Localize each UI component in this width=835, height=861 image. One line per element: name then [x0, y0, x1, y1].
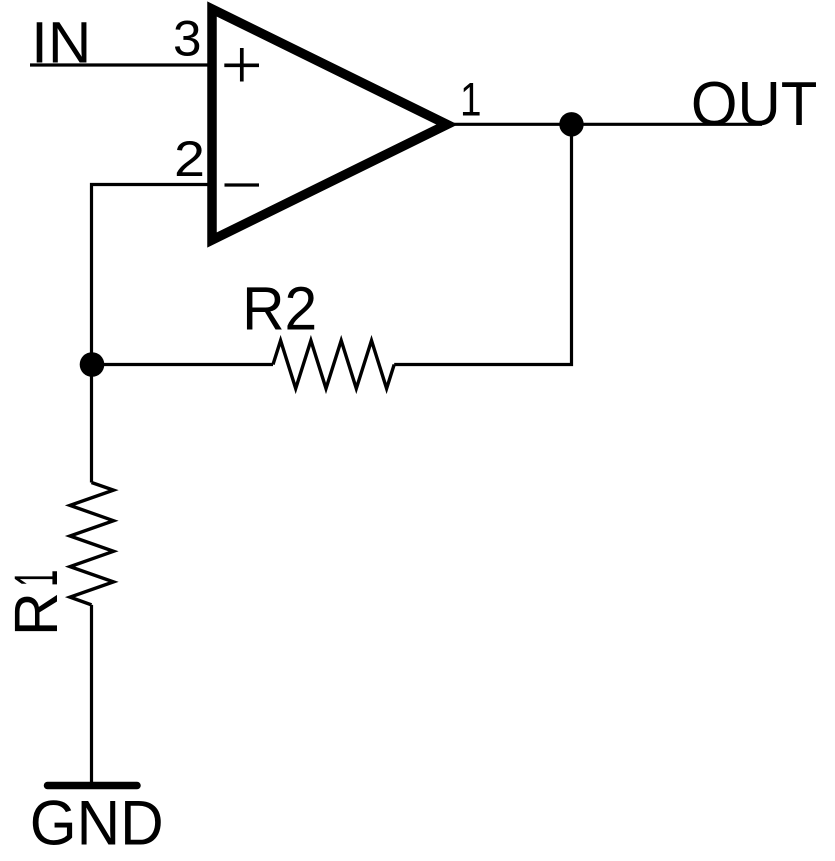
- op-amp non-inverting + marker: [224, 48, 259, 82]
- svg-text:R2: R2: [242, 275, 317, 343]
- svg-text:2: 2: [174, 131, 205, 187]
- junction dot: output node: [559, 112, 583, 136]
- junction dot: feedback node: [80, 352, 105, 377]
- wire: op-amp pin 2 to feedback node: [92, 185, 209, 365]
- resistor R2 (feedback): [273, 341, 394, 389]
- op-amp U1 triangle body: [212, 9, 447, 240]
- svg-text:IN: IN: [31, 11, 91, 76]
- wire: input net from IN label to op-amp pin 3: [30, 63, 208, 66]
- svg-text:OUT: OUT: [691, 69, 818, 139]
- wire: op-amp output pin 1 to OUT: [450, 123, 762, 126]
- reference label R1 (rotated): [2, 570, 70, 636]
- svg-text:1: 1: [460, 73, 482, 126]
- svg-text:R: R: [2, 592, 70, 636]
- wire: feedback node to R2 left end: [92, 363, 274, 366]
- resistor R1 (to ground): [70, 483, 114, 605]
- svg-text:GND: GND: [30, 789, 164, 859]
- wire: feedback node down to R1: [90, 365, 93, 483]
- op-amp inverting - marker: [225, 183, 260, 186]
- svg-text:1: 1: [2, 570, 70, 587]
- svg-text:3: 3: [173, 10, 202, 67]
- ground symbol bar: [48, 782, 138, 790]
- wire: R1 bottom to ground symbol: [90, 605, 93, 782]
- wire: output node down to feedback resistor R2: [394, 124, 571, 364]
